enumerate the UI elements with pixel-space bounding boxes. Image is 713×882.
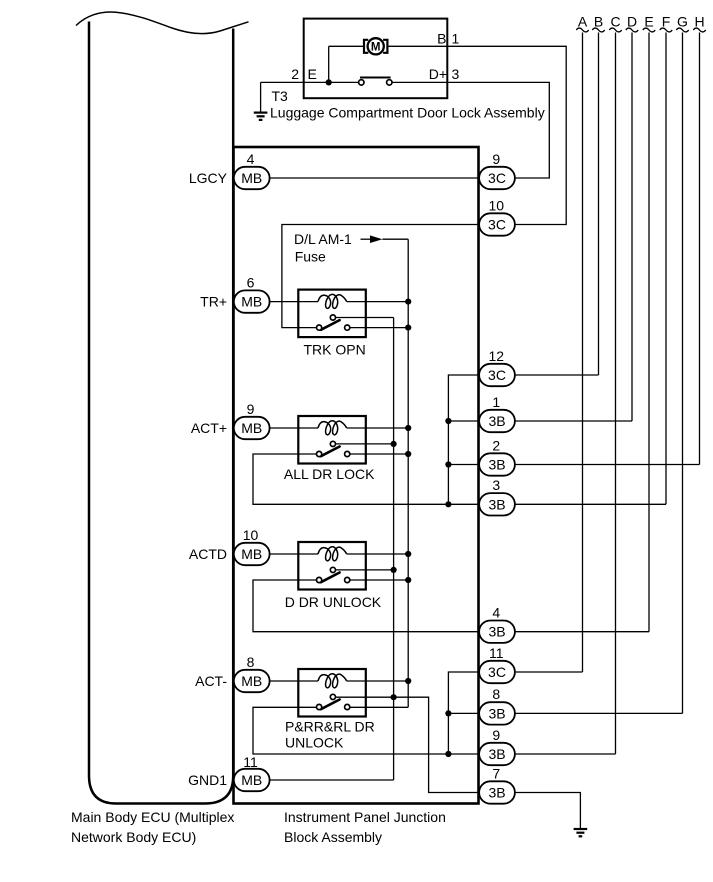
wire D DR UNLOCK switch out [350,579,408,581]
node D (wire break label) [626,14,638,32]
svg-text:3: 3 [492,477,500,493]
svg-text:E: E [644,14,653,30]
label ACTD [189,546,227,562]
label D/L AM-1 Fuse [294,231,352,264]
wire GND bus vertical [393,318,395,781]
connector 3B pin 2 [479,437,515,475]
wire T3 ground lead [260,82,262,111]
junction dots on fuse feed [405,299,411,685]
wire D DR UNLOCK switch to 3B-4 [253,580,479,632]
Luggage Compartment Door Lock Assembly box [304,19,448,99]
svg-text:A: A [578,14,588,30]
wire TRK OPN coil out [347,301,409,303]
wire LGCY to 3C-9 [269,177,479,179]
connector 3B pin 9 [479,727,515,765]
connector 3B pin 4 [479,605,515,643]
wire ALL DR LOCK NC contact [336,443,394,445]
wire 3C-11/3B-8/3B-9 bus [448,672,479,754]
wire GND1 to GND bus [269,779,393,781]
svg-text:11: 11 [489,645,504,661]
svg-text:3B: 3B [488,413,505,429]
svg-text:P&RR&RL DR: P&RR&RL DR [285,719,375,735]
svg-text:GND1: GND1 [188,772,227,788]
label T3 [272,88,289,104]
svg-text:12: 12 [489,348,505,364]
svg-text:3C: 3C [488,217,506,233]
svg-text:Luggage Compartment Door Lock: Luggage Compartment Door Lock Assembly [270,105,545,121]
wire pin2 E row [261,81,359,83]
wire ACT+ to ALL DR LOCK coil [269,427,318,429]
motor M1 (door lock motor) [364,38,387,54]
label Instrument Panel Junction Block Assembly [284,809,446,845]
svg-text:11: 11 [243,754,258,770]
svg-text:B: B [594,14,603,30]
svg-text:B: B [437,31,446,47]
connector 3C pin 10 [479,197,515,235]
svg-text:LGCY: LGCY [189,170,228,186]
wire column H [699,33,701,465]
pin number 1 [452,31,460,47]
connector 3C pin 9 [479,151,515,189]
relay ALL DR LOCK [284,416,375,482]
svg-text:MB: MB [241,673,262,689]
svg-text:G: G [677,14,688,30]
wire 3C-12/3B-1/3B-2/3B-3 bus [448,375,479,504]
svg-text:3C: 3C [488,170,506,186]
svg-text:D DR UNLOCK: D DR UNLOCK [285,594,382,610]
ground T3 [254,113,268,120]
svg-text:Network Body ECU): Network Body ECU) [71,829,196,845]
relay P&RR&RL DR UNLOCK [285,669,375,750]
wire pin3 D+: switch to 3C-9 [392,82,549,178]
svg-text:1: 1 [452,31,460,47]
label TR+ [200,294,227,310]
node A (wire break label) [576,14,588,32]
svg-text:T3: T3 [272,88,289,104]
node G (wire break label) [676,14,688,32]
connector MB pin 10 (ACTD) [234,527,270,565]
wire P&RR&RL NC contact to 3B-7 [336,697,480,792]
wire column D [631,33,633,422]
wire 3C-12 to node B [515,374,599,376]
connector 3B pin 1 [479,394,515,432]
node E junction [326,79,332,85]
label GND1 [188,772,227,788]
wire 3B-8 to node G [515,712,683,714]
wire ALL DR LOCK coil out [347,427,409,429]
svg-text:ACT-: ACT- [195,673,227,689]
svg-text:6: 6 [247,274,255,290]
wire 3B-4 to node E [515,631,649,633]
connector 3C pin 11 [479,645,515,683]
wire 3B-9 to node C [515,753,616,755]
connector MB pin 8 (ACT-) [234,654,270,692]
svg-text:3C: 3C [488,367,506,383]
node E (wire break label) [643,14,655,32]
svg-text:Main Body ECU (Multiplex: Main Body ECU (Multiplex [71,809,234,825]
node B (wire break label) [592,14,604,32]
wire ALL DR LOCK switch out [350,453,408,455]
Instrument Panel Junction Block box [234,147,479,804]
wire 3B-1 to node D [515,420,632,422]
svg-text:9: 9 [492,727,500,743]
svg-text:3B: 3B [488,746,505,762]
svg-text:2: 2 [492,437,500,453]
wire TRK OPN switch out [350,327,408,329]
svg-text:TRK OPN: TRK OPN [304,342,366,358]
wire P&RR&RL switch out [350,706,408,708]
svg-text:3B: 3B [488,496,505,512]
wire column A [582,33,584,673]
node F (wire break label) [660,14,672,32]
svg-text:1: 1 [492,394,500,410]
svg-text:H: H [694,14,704,30]
wire motor left lead [329,46,364,82]
wire D DR UNLOCK coil out [347,553,409,555]
wire 3C-10 to TRK OPN switch [282,225,479,328]
svg-text:9: 9 [247,401,255,417]
wire TR+ to TRK OPN coil [269,301,318,303]
svg-text:4: 4 [247,151,255,167]
svg-text:ALL DR LOCK: ALL DR LOCK [284,466,375,482]
svg-text:F: F [662,14,671,30]
connector MB pin 4 (LGCY) [234,151,270,189]
label ACT- [195,673,227,689]
connector MB pin 6 (TR+) [234,274,270,312]
connector 3B pin 3 [479,477,515,515]
node C (wire break label) [609,14,621,32]
svg-text:D: D [627,14,637,30]
junction dots on 3B bus upper [445,418,451,508]
pin label D+ [429,66,447,82]
pin number 3 [452,66,460,82]
wire 3B-3 to node F [515,503,666,505]
svg-text:3: 3 [452,66,460,82]
wire column E [648,33,650,632]
wire column G [682,33,684,714]
label Main Body ECU [71,809,234,845]
svg-text:MB: MB [241,420,262,436]
junction dots on GND bus [391,441,397,701]
wire column F [665,33,667,505]
relay TRK OPN [298,290,366,358]
svg-text:3B: 3B [488,785,505,801]
svg-text:TR+: TR+ [200,294,227,310]
label LGCY [189,170,228,186]
svg-text:9: 9 [492,151,500,167]
wire P&RR&RL coil out [347,680,409,682]
connector MB pin 11 (GND1) [234,754,270,791]
connector 3B pin 7 [479,765,515,803]
Main Body ECU box (left, wavy-top rounded rectangle) [76,12,249,804]
svg-text:MB: MB [241,294,262,310]
wire P&RR&RL switch to 3B-9 [253,707,479,754]
svg-text:MB: MB [241,546,262,562]
svg-text:7: 7 [492,765,500,781]
svg-text:Instrument Panel Junction: Instrument Panel Junction [284,809,446,825]
svg-text:ACT+: ACT+ [191,420,227,436]
svg-text:3B: 3B [488,624,505,640]
svg-text:MB: MB [241,772,262,788]
svg-text:Fuse: Fuse [295,248,326,264]
svg-text:UNLOCK: UNLOCK [285,734,344,750]
svg-text:ACTD: ACTD [189,546,227,562]
wire 3C-11 to node A [515,671,583,673]
svg-text:D+: D+ [429,66,447,82]
svg-text:C: C [610,14,620,30]
wire column C [615,33,617,755]
svg-text:10: 10 [489,197,505,213]
svg-text:MB: MB [241,170,262,186]
connector 3B pin 8 [479,686,515,724]
label ACT+ [191,420,227,436]
svg-text:8: 8 [247,654,255,670]
wire ACTD to D DR UNLOCK coil [269,553,318,555]
wire 3B-2 to node H [515,464,700,466]
node H (wire break label) [693,14,705,32]
junction dots on 3B bus lower [445,710,451,757]
svg-text:3B: 3B [488,457,505,473]
pin label B [437,31,446,47]
svg-text:4: 4 [492,605,500,621]
svg-text:8: 8 [492,686,500,702]
svg-text:D/L AM-1: D/L AM-1 [294,231,352,247]
svg-text:E: E [308,66,317,82]
svg-text:3B: 3B [488,705,505,721]
fuse arrow [361,235,409,243]
wire D DR UNLOCK NC contact [336,569,394,571]
pin number 2 [291,66,299,82]
wire ALL DR LOCK switch to 3B-3 [253,454,479,504]
wire fuse feed vertical [407,239,409,707]
wire column B [598,33,600,376]
wire TRK OPN NC contact to GND bus [336,317,394,319]
svg-text:M: M [371,42,381,54]
svg-text:2: 2 [291,66,299,82]
svg-text:Block Assembly: Block Assembly [284,829,382,845]
wire 3B-7 to ground [515,793,580,829]
wire pin1 B: motor to 3C-10 [388,46,566,224]
svg-text:3C: 3C [488,664,506,680]
wire ACT- to P&RR&RL coil [269,680,318,682]
switch SW1 (courtesy switch) contacts [359,78,392,86]
ground (body ground at 3B-7) [574,829,588,836]
svg-text:10: 10 [243,527,259,543]
connector MB pin 9 (ACT+) [234,401,270,439]
label Luggage Compartment Door Lock Assembly [270,105,545,121]
connector 3C pin 12 [479,348,515,386]
relay D DR UNLOCK [285,542,382,610]
pin label E [308,66,317,82]
